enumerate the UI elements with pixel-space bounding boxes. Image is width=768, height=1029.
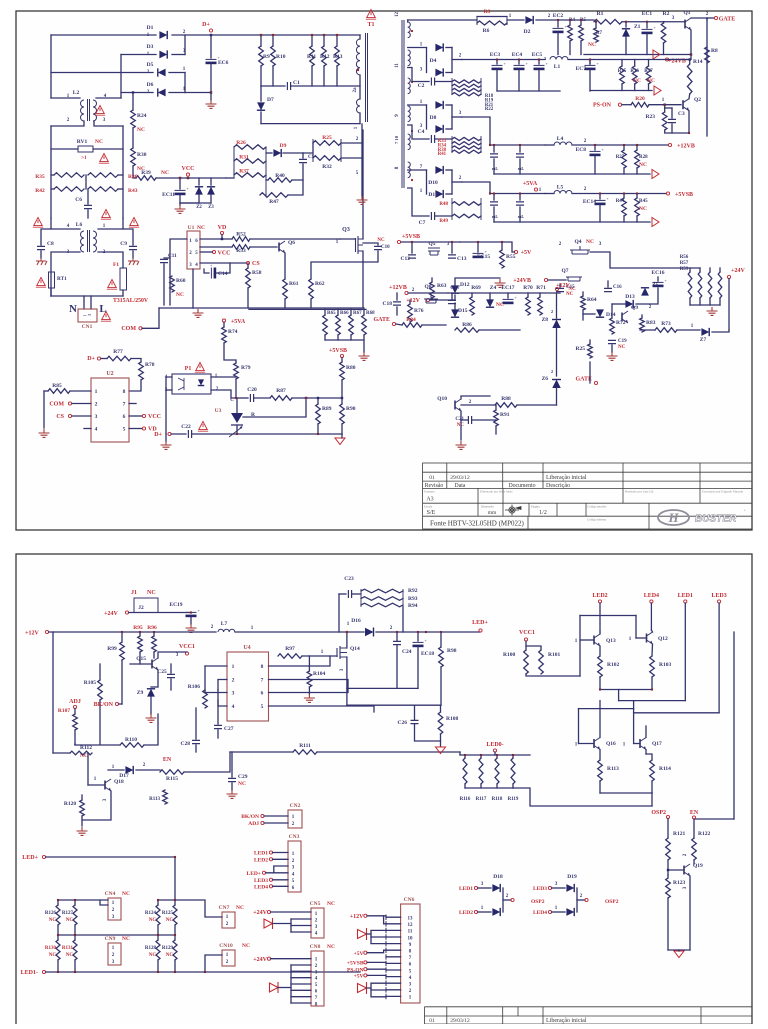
varistor RV1 box <box>78 146 93 152</box>
svg-text:6: 6 <box>123 414 126 420</box>
wire R62 top to Q3 source <box>311 262 363 279</box>
wire R12 bottom <box>323 66 325 86</box>
zener Z4 <box>486 299 494 307</box>
wire bus lower drop <box>651 793 653 806</box>
svg-text:U3: U3 <box>215 408 222 414</box>
svg-text:D+: D+ <box>202 22 210 28</box>
wire emitter bus lower <box>600 792 652 794</box>
choke L2 core <box>88 99 90 121</box>
transistor Q18 <box>104 781 106 790</box>
wire L2 pin4 <box>96 97 121 99</box>
ground R104 <box>304 694 315 702</box>
wire C22 to U3 <box>192 433 237 435</box>
node +12V circle b <box>426 298 429 301</box>
choke L2 right winding <box>93 100 97 121</box>
T1 secondary winding e <box>408 134 411 150</box>
wire R25b top <box>589 340 591 344</box>
wire q10 c <box>461 396 490 399</box>
svg-text:– ~: – ~ <box>82 313 92 319</box>
resistor R63 <box>430 282 435 298</box>
svg-text:VCC1: VCC1 <box>179 644 195 650</box>
svg-text:D12: D12 <box>460 282 470 288</box>
wire R85 left <box>44 390 48 392</box>
resistor R24 <box>131 110 136 128</box>
svg-text:R117: R117 <box>476 797 487 802</box>
wire C7 out <box>435 215 452 217</box>
junction EC11 <box>179 177 181 179</box>
svg-text:LED0-: LED0- <box>486 742 503 748</box>
wire R87 out <box>292 397 342 399</box>
arrow 5v gnd <box>652 218 659 227</box>
resistor R44 <box>622 198 627 216</box>
svg-text:R7: R7 <box>596 31 603 36</box>
svg-text:CN4: CN4 <box>105 891 116 897</box>
wire d8 bar r <box>451 105 453 129</box>
svg-text:R35: R35 <box>35 174 45 180</box>
svg-text:R88: R88 <box>501 396 511 402</box>
wire U3 cathode <box>236 398 238 413</box>
wire R15 top <box>621 60 623 67</box>
wire q7 row <box>548 279 566 281</box>
wire Z3 gnd link <box>180 202 211 204</box>
svg-text:R119: R119 <box>508 797 519 802</box>
wire r104 top <box>308 656 310 671</box>
resistor R25 <box>313 141 341 146</box>
svg-text:LED4: LED4 <box>644 593 659 599</box>
wire C14 right <box>216 263 230 273</box>
svg-text:EC3: EC3 <box>490 52 501 58</box>
svg-text:R95: R95 <box>133 625 143 631</box>
svg-text:D3: D3 <box>147 44 154 50</box>
wire cn6 p0 <box>386 916 401 918</box>
wire R27 top <box>623 145 625 150</box>
svg-text:R26: R26 <box>236 140 246 146</box>
node LED+ circle <box>479 629 482 632</box>
resistor R85 <box>48 389 70 394</box>
zener Z6 <box>552 380 561 389</box>
wire R11 top <box>311 35 313 46</box>
svg-text:10: 10 <box>408 936 414 941</box>
wire r96 bot <box>153 652 155 658</box>
svg-text:NC: NC <box>618 345 626 350</box>
transistor Q2 <box>682 100 684 109</box>
diode D6 <box>158 89 166 97</box>
svg-text:R74: R74 <box>228 329 238 335</box>
wire D9 row l <box>266 152 272 154</box>
svg-text:NC: NC <box>95 139 103 145</box>
svg-text:R89: R89 <box>322 406 332 412</box>
svg-text:R56: R56 <box>680 255 689 260</box>
wire COM pin2 <box>72 403 91 405</box>
svg-text:VCC: VCC <box>148 414 161 420</box>
wire U1 bottom bus <box>159 307 364 309</box>
wire R44 top <box>623 194 625 199</box>
diode D19 upper <box>566 884 574 892</box>
svg-text:1: 1 <box>232 664 235 670</box>
svg-text:LED2: LED2 <box>459 910 473 916</box>
warning triangle F1 <box>108 280 117 288</box>
svg-text:C13: C13 <box>457 256 467 262</box>
wire q13 base <box>580 639 594 641</box>
svg-text:+12V: +12V <box>350 914 364 920</box>
transistor Q14 symbol <box>337 646 347 659</box>
svg-text:R17: R17 <box>644 69 653 74</box>
resistor R73 <box>655 328 677 333</box>
wire u4 pin5 <box>269 706 375 712</box>
svg-text:Q14: Q14 <box>350 646 360 652</box>
capacitor C9 <box>129 246 137 249</box>
wire r84 out <box>422 324 446 326</box>
wire r113 bot <box>599 781 601 793</box>
wire snub left drop <box>338 594 340 632</box>
wire C3 top <box>671 108 673 118</box>
wire Q2 em bus <box>665 130 689 133</box>
node LED3 cn3 circle <box>269 878 272 881</box>
junction dot 9 <box>557 19 559 21</box>
node LED1- circle <box>42 970 45 973</box>
capacitor C21 <box>468 416 471 424</box>
svg-text:R125: R125 <box>162 911 174 916</box>
transistor Q5 symbol <box>428 248 440 255</box>
wire r124 b <box>157 925 159 935</box>
wire r76 top <box>409 300 411 304</box>
node +5vsb cn6 circle <box>364 961 367 964</box>
wire C1 to T1 <box>291 85 360 87</box>
svg-text:NC: NC <box>327 901 335 907</box>
connector CN7 <box>222 912 235 928</box>
wire d12 up <box>455 278 500 285</box>
junction dot 39 <box>651 688 653 690</box>
resistor R4 <box>568 25 573 41</box>
svg-text:D6: D6 <box>147 82 154 88</box>
node LED+ cn3 circle <box>262 871 265 874</box>
capacitor EC7b <box>585 64 596 66</box>
wire F1 bottom <box>122 290 124 296</box>
wire bus2 vertical <box>120 55 122 99</box>
wire R61 bot <box>284 299 286 308</box>
junction dot 41 <box>74 899 76 901</box>
resistor R113 <box>598 760 603 781</box>
junction dot 49 <box>57 971 59 973</box>
wire ec18 bot <box>417 647 419 688</box>
svg-text:D16: D16 <box>351 618 361 624</box>
resistor R1 <box>594 19 622 24</box>
T1 secondary winding c <box>408 78 411 94</box>
svg-text:A3: A3 <box>426 497 433 503</box>
svg-text:C4: C4 <box>418 129 425 135</box>
junction neg rail <box>210 91 212 93</box>
svg-text:C9: C9 <box>120 241 127 247</box>
wire R65-68 bottom bus <box>325 339 364 341</box>
R26 ladder right bar <box>265 147 267 195</box>
wire ec18 top <box>417 632 419 641</box>
wire left col p2 <box>52 632 54 753</box>
wire r108 top <box>440 705 442 712</box>
R92 bars <box>361 589 403 607</box>
wire LED1 cn3 <box>273 852 289 854</box>
svg-text:L2: L2 <box>73 90 80 96</box>
resistor R30 <box>131 148 136 166</box>
svg-text:Revisão: Revisão <box>425 483 444 489</box>
wire VD stub <box>221 235 223 240</box>
junction dot 4 <box>646 21 648 23</box>
svg-text:R41: R41 <box>438 152 447 157</box>
wire R5x top 1 <box>699 268 701 272</box>
svg-text:LED4: LED4 <box>533 910 547 916</box>
wire R68 top <box>363 309 365 315</box>
wire z7 row <box>677 329 700 331</box>
svg-text:R44: R44 <box>616 199 625 204</box>
wire +5VSB rail row <box>572 193 666 195</box>
wire q18 base riser <box>87 753 89 785</box>
svg-text:LED3: LED3 <box>711 593 726 599</box>
wire bus1 vertical <box>50 35 52 98</box>
svg-text:EC19: EC19 <box>169 602 182 608</box>
resistor R65 <box>323 315 328 335</box>
junction dot 31 <box>417 631 419 633</box>
node LED4 cn3 circle <box>269 885 272 888</box>
wire u4 pin1 drop <box>204 666 206 690</box>
junction dot 51 <box>157 971 159 973</box>
R26 ladder left bar <box>233 147 235 178</box>
node +12V p2 circle <box>45 630 48 633</box>
wire U3 ref <box>243 400 306 417</box>
transistor Q3 symbol <box>356 236 364 254</box>
wire R13 top <box>336 35 338 46</box>
wire z4 stub <box>489 293 491 299</box>
svg-text:R100: R100 <box>503 652 515 658</box>
svg-text:LED3: LED3 <box>533 886 547 892</box>
wire led0 bus <box>460 754 530 756</box>
svg-text:R112: R112 <box>80 745 92 751</box>
wire r110 l2 <box>75 744 120 746</box>
node LED3 circle <box>718 600 721 603</box>
junction dot 33 <box>425 631 427 633</box>
svg-text:Código modelo: Código modelo <box>587 505 607 509</box>
svg-text:Dimensão: Dimensão <box>481 505 494 509</box>
svg-text:Código interno: Código interno <box>587 518 607 522</box>
wire +24VB <box>669 59 690 61</box>
wire r100 bot bus <box>526 674 580 676</box>
resistor R42 <box>54 187 84 192</box>
wire r126 b <box>57 925 59 935</box>
svg-text:R1: R1 <box>597 11 604 17</box>
IC U4 box <box>227 652 269 721</box>
wire D+ R77 <box>101 358 107 360</box>
svg-text:NC: NC <box>122 936 130 942</box>
wire C8 branch <box>41 229 51 245</box>
wire 5vsb cn6 <box>367 961 386 963</box>
wire r131 t <box>74 935 76 940</box>
wire EC3-5 gnd bus <box>497 90 560 92</box>
wire q12 base <box>636 637 647 639</box>
resistor R70 <box>526 297 531 315</box>
wire VCC to ladder <box>226 177 234 179</box>
transistor Q10 <box>454 401 456 410</box>
node GATE circle3 <box>594 381 597 384</box>
junction dot 62 <box>664 104 666 106</box>
capacitor C2 <box>431 78 434 86</box>
wire cn4 bus <box>58 899 108 901</box>
wire CN1 bus <box>51 295 123 297</box>
wire r63 bot <box>431 298 433 300</box>
wire d10 bar r <box>451 170 453 194</box>
wire Q1 collector <box>691 18 707 20</box>
svg-text:NC: NC <box>377 238 385 243</box>
wire R56 bus <box>690 304 720 306</box>
wire D7 branch <box>260 86 262 101</box>
earth ground C9 <box>128 258 139 265</box>
svg-text:+24V: +24V <box>253 910 267 916</box>
transistor Q12 <box>646 634 648 643</box>
ground d12 area <box>495 279 506 287</box>
svg-text:VCC1: VCC1 <box>519 630 535 636</box>
resistor R118 <box>495 758 499 784</box>
node +5VA circle2 <box>534 188 537 191</box>
wire q10 e <box>460 411 462 420</box>
wire lineA right up <box>633 701 635 709</box>
inductor L3 winding <box>357 99 361 113</box>
transistor Q7 symbol <box>566 277 582 281</box>
svg-text:D13: D13 <box>625 294 635 300</box>
svg-text:R23: R23 <box>646 114 656 120</box>
wire R117 top <box>480 755 482 758</box>
ground opto <box>161 441 172 449</box>
wire r102 bot <box>599 677 601 690</box>
svg-text:D+: D+ <box>87 356 95 362</box>
wire cap f3 stub <box>493 194 495 201</box>
junction dot 46 <box>157 934 159 936</box>
capacitor C1 <box>287 82 290 90</box>
R33 ladder bars <box>452 136 481 153</box>
wire R35-R42 mid <box>85 175 87 189</box>
wire top bus F <box>249 308 366 310</box>
wire cn5 p4 <box>291 931 311 933</box>
svg-text:R84: R84 <box>406 317 416 323</box>
svg-text:4: 4 <box>95 427 98 433</box>
resistor R126 <box>56 905 60 925</box>
wire L2 pin3 down <box>94 121 123 126</box>
svg-text:+5VSB: +5VSB <box>329 348 347 354</box>
arrow sec gnd <box>654 86 661 95</box>
svg-text:NC: NC <box>166 918 174 923</box>
svg-text:12: 12 <box>408 923 414 928</box>
wire RT1 bottom <box>50 288 52 296</box>
capacitor C10 <box>374 246 382 249</box>
wire Q1 base <box>664 21 685 23</box>
resistor R17 <box>646 66 651 84</box>
capacitor C5 <box>299 159 307 162</box>
wire d8 out <box>452 116 462 118</box>
wire cn8 p971.3 <box>291 970 311 972</box>
svg-text:R24: R24 <box>137 113 147 119</box>
wire C6 top <box>87 189 89 204</box>
wire u4 pin7 <box>269 680 349 693</box>
wire q15 base row <box>130 663 152 665</box>
svg-text:D14: D14 <box>606 312 616 318</box>
wire led2 drop <box>599 603 601 632</box>
svg-text:NC: NC <box>588 42 596 48</box>
wire q5 to +5v <box>502 242 515 252</box>
resistor R12 <box>322 46 327 66</box>
node D19 b circle <box>548 910 551 913</box>
svg-text:GATE: GATE <box>719 17 736 23</box>
svg-text:Escala: Escala <box>424 505 433 509</box>
wire d10 in top <box>408 169 427 171</box>
wire r126 t <box>57 900 59 905</box>
svg-text:R16: R16 <box>630 69 639 74</box>
T1 secondary winding f <box>408 162 411 178</box>
capacitor C14 <box>210 268 212 279</box>
wire U1 pin5 R53 <box>200 246 232 248</box>
svg-text:D7: D7 <box>267 97 274 103</box>
svg-text:OSP2: OSP2 <box>651 810 666 816</box>
junction dot 57 <box>236 433 238 435</box>
svg-text:R15: R15 <box>618 69 627 74</box>
resistor R32 <box>313 156 341 161</box>
wire neg rail <box>185 92 211 94</box>
zener Z2 <box>195 187 203 195</box>
T1 secondary dot <box>411 179 413 181</box>
wire d10 bar l <box>426 170 428 194</box>
wire C13 stub <box>451 242 453 253</box>
wire r128 t <box>157 935 159 940</box>
wire 12vb row <box>408 292 448 294</box>
resistor R80 <box>340 362 345 380</box>
wire q16 base <box>579 743 595 745</box>
junction dot 12 <box>594 144 596 146</box>
svg-text:Documento: Documento <box>508 483 535 489</box>
svg-text:C8: C8 <box>47 241 54 247</box>
svg-text:R107: R107 <box>58 708 70 714</box>
node +5VSB circle <box>340 354 343 357</box>
svg-text:EC11: EC11 <box>162 192 175 198</box>
wire z7 out <box>712 330 729 332</box>
svg-text:NC: NC <box>161 170 169 176</box>
wire C14 stub <box>204 269 209 273</box>
svg-text:Q5: Q5 <box>428 241 435 247</box>
node D+ circle <box>209 29 212 32</box>
wire z9 bot <box>150 697 152 714</box>
resistor R45 <box>635 198 640 216</box>
wire r130 b <box>57 960 59 972</box>
svg-text:D5: D5 <box>147 62 154 68</box>
wire R24 tap <box>132 93 134 111</box>
svg-text:+5VSB: +5VSB <box>402 234 420 240</box>
svg-text:R102: R102 <box>607 662 619 668</box>
connector CN10 <box>222 950 235 966</box>
svg-text:D15: D15 <box>458 308 468 314</box>
resistor R87 <box>270 396 292 401</box>
resistor R8 <box>705 47 710 63</box>
wire r105 top <box>99 664 101 680</box>
wire R45 top <box>636 194 638 199</box>
wire C17 stub <box>451 293 453 299</box>
svg-text:LED2: LED2 <box>254 857 268 863</box>
svg-text:EN: EN <box>163 757 172 763</box>
node +5VSB circle2 <box>666 192 669 195</box>
ground U1 <box>193 309 204 317</box>
svg-text:C19: C19 <box>618 339 627 344</box>
dot T1 winding <box>357 69 359 71</box>
svg-text:11: 11 <box>395 63 400 68</box>
svg-text:CN9: CN9 <box>105 936 116 942</box>
wire EC2 drop <box>557 20 559 27</box>
wire r120 bot <box>81 816 83 826</box>
junction r121 base <box>667 869 669 871</box>
svg-text:NC: NC <box>197 225 205 231</box>
resistor R74 <box>222 327 227 343</box>
